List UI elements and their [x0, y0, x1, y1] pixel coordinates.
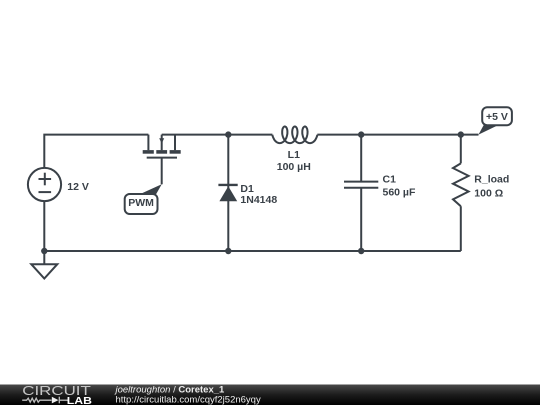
svg-text:100 Ω: 100 Ω: [474, 187, 503, 199]
svg-text:1N4148: 1N4148: [240, 194, 277, 206]
svg-text:100 µH: 100 µH: [277, 161, 311, 173]
svg-text:560 µF: 560 µF: [383, 187, 416, 199]
voltage source V1: [28, 168, 61, 201]
ground: [31, 264, 57, 278]
node C: +5V output node: [458, 131, 464, 137]
node B: cap top: [358, 131, 364, 137]
flag PWM: [125, 184, 162, 214]
wire diode branch: [227, 135, 229, 251]
capacitor C1: [344, 182, 378, 188]
wire top rail left: [44, 135, 148, 168]
svg-text:R_load: R_load: [474, 174, 509, 186]
logo CIRCUITLAB: [22, 383, 92, 405]
wire source bottom to ground node: [43, 201, 45, 264]
wire top rail mid: [162, 134, 273, 136]
svg-text:LAB: LAB: [67, 396, 92, 405]
node A: switch node at diode top: [225, 131, 231, 137]
diode D1: [218, 185, 237, 201]
svg-text:+5 V: +5 V: [486, 111, 508, 123]
wire capacitor branch top: [360, 135, 362, 182]
svg-text:C1: C1: [383, 174, 397, 186]
svg-text:L1: L1: [288, 149, 300, 161]
transistor M1: [143, 135, 181, 185]
svg-text:http://circuitlab.com/cqyf2j52: http://circuitlab.com/cqyf2j52n6yqy: [116, 394, 261, 405]
node D: ground junction: [41, 248, 47, 254]
wire top rail after inductor: [317, 134, 478, 136]
svg-text:12 V: 12 V: [67, 181, 89, 193]
wire capacitor branch bottom: [360, 188, 362, 251]
flag +5V: [479, 107, 512, 134]
resistor R_load: [453, 135, 469, 251]
node F: cap bottom: [358, 248, 364, 254]
svg-text:PWM: PWM: [128, 197, 154, 209]
wire bottom rail: [44, 250, 461, 252]
inductor L1: [272, 127, 317, 144]
node E: diode bottom: [225, 248, 231, 254]
footer bar: [0, 385, 540, 405]
